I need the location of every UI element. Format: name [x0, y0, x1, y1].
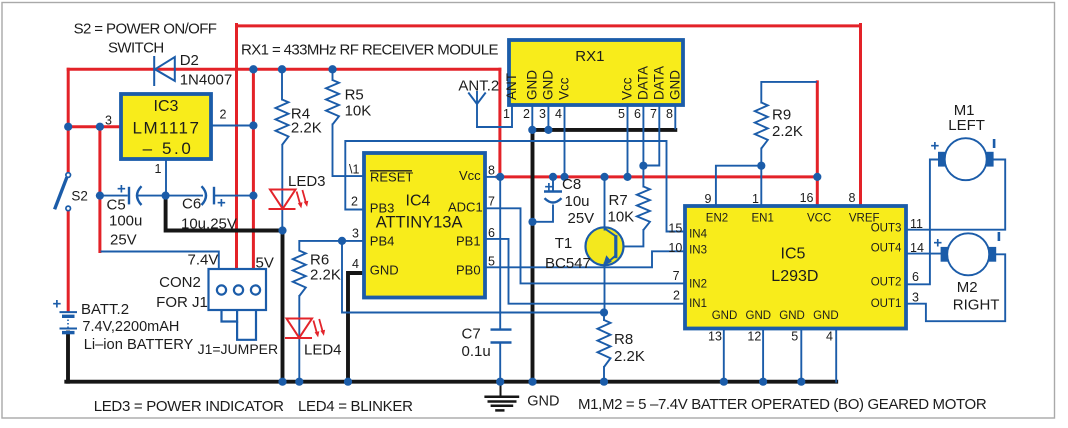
svg-text:7: 7: [673, 269, 680, 283]
wire: antenna stem: [476, 104, 478, 127]
wire: ground from C5/C6 junction down, right, and down to bottom bus: [166, 197, 283, 382]
wire: R5 bottom to IC4 RESET pin 1: [333, 125, 363, 177]
node: battery riser / IC3 pin3: [64, 123, 72, 131]
svg-text:IN4: IN4: [689, 229, 708, 241]
wire: R4 top to 5V line: [281, 71, 283, 100]
svg-text:LED4: LED4: [304, 342, 342, 359]
resistor R5: [326, 80, 339, 125]
wire: R9 bottom node to IC5 EN2 pin 9: [716, 166, 761, 205]
wire: bottom ground bus: [66, 380, 836, 384]
svg-text:5: 5: [488, 255, 495, 269]
wire: RX1 pin 7 DATA joining DATA node: [645, 105, 659, 166]
svg-text:OUT1: OUT1: [871, 298, 902, 310]
svg-text:M1,M2 = 5 –7.4V BATTER OPERATE: M1,M2 = 5 –7.4V BATTER OPERATED (BO) GEA…: [578, 396, 987, 413]
svg-text:25V: 25V: [110, 232, 137, 249]
wire: R9 top to VCC corner: [761, 82, 816, 103]
IC4 ATTINY13A body: [364, 153, 485, 298]
svg-text:GND: GND: [813, 310, 839, 322]
jumper J1 bracket 2: [237, 311, 256, 340]
svg-text:IC5: IC5: [781, 246, 806, 263]
node: LED3 cathode / ground line: [278, 226, 286, 234]
capacitor C5: [129, 186, 142, 205]
svg-text:PB4: PB4: [370, 234, 395, 249]
wire: emitter node to R8 top: [603, 313, 605, 321]
svg-text:– 5.0: – 5.0: [143, 139, 194, 158]
svg-text:GND: GND: [524, 70, 539, 100]
wire: 7.4V vertical to CON2 pin left: [235, 25, 238, 270]
svg-text:14: 14: [910, 241, 924, 255]
wire: IC4 pin 3 PB4 stub: [342, 240, 363, 242]
svg-text:R8: R8: [614, 331, 633, 348]
IC5 L293D body: [685, 206, 906, 329]
node: RX1 pin3 / ground: [544, 126, 552, 134]
wire: T1 emitter down to node: [604, 264, 606, 313]
wire: R5 top to 5V line: [332, 71, 334, 80]
wire: RX1 pin 4 Vcc to 5V rail: [564, 105, 566, 175]
svg-text:6: 6: [634, 107, 641, 121]
node: bus / IC5 pin12: [759, 378, 767, 386]
svg-text:3: 3: [912, 291, 919, 305]
svg-text:10: 10: [668, 241, 682, 255]
svg-text:VCC: VCC: [807, 213, 831, 225]
svg-text:SWITCH: SWITCH: [108, 40, 164, 57]
svg-text:10K: 10K: [608, 209, 635, 226]
svg-text:IC3: IC3: [154, 98, 179, 115]
node: 5V rail / IC4 pin8 / C7: [496, 173, 504, 181]
wire: RX1 pin 5 Vcc to 5V rail: [627, 105, 629, 175]
wire: RX1 pin 2 GND stub: [531, 105, 533, 128]
svg-text:LED3 = POWER INDICATOR: LED3 = POWER INDICATOR: [94, 398, 284, 415]
motor M2: [941, 233, 997, 275]
wire: RX1 pin 3 GND stub: [547, 105, 549, 128]
motor M1: [938, 138, 994, 180]
svg-text:OUT3: OUT3: [871, 223, 902, 235]
svg-text:GND: GND: [370, 263, 399, 278]
node: 5V line / R4: [278, 65, 286, 73]
wire: battery riser above switch S2: [67, 69, 70, 172]
battery BATT.2: [60, 312, 78, 333]
svg-text:3: 3: [105, 114, 112, 128]
wire: main ground vertical x=532.5: [531, 130, 535, 382]
svg-text:IN2: IN2: [689, 278, 707, 290]
svg-text:6: 6: [912, 270, 919, 284]
svg-text:J1=JUMPER: J1=JUMPER: [198, 341, 279, 357]
connector CON2: [209, 269, 267, 310]
node: DATA pins 6+7: [639, 162, 647, 170]
svg-text:2.2K: 2.2K: [310, 267, 341, 284]
svg-text:M2: M2: [957, 279, 978, 296]
wire: IC5 GND pin 12 to bus: [762, 329, 764, 380]
svg-text:RIGHT: RIGHT: [953, 297, 1000, 314]
svg-text:IC4: IC4: [406, 193, 431, 210]
svg-text:3: 3: [352, 227, 359, 241]
wire: VREF vertical from top rail to IC5 pin 8: [859, 25, 862, 206]
svg-text:S2: S2: [71, 188, 88, 203]
node: bus / LED4: [295, 378, 303, 386]
node: bus / IC5 pin13: [720, 378, 728, 386]
svg-text:PB3: PB3: [370, 201, 395, 216]
node: 5V rail / IC5 VCC: [813, 173, 821, 181]
capacitor C8: [544, 192, 562, 203]
wire: IC4 pin 2 PB3 up and across to IC5 IN4: [345, 141, 685, 232]
node: 5V rail / T1 collector: [600, 173, 608, 181]
wire: IC4 pin 8 Vcc stub to 5V rail: [485, 176, 498, 178]
svg-text:+: +: [217, 195, 226, 212]
resistor R7: [637, 187, 650, 231]
svg-text:C6: C6: [182, 196, 201, 213]
wire: T1 collector to 5V rail: [604, 178, 606, 229]
svg-text:+: +: [931, 138, 940, 155]
node: bus / IC5 pin5: [797, 378, 805, 386]
wire: IC5 GND pin 5 to bus: [800, 329, 802, 380]
wire: IC5 OUT4 pin 14 to M2 left brush: [906, 253, 941, 255]
wire: IC4 pin 6 PB1 to IC5 IN1: [485, 239, 685, 304]
wire: IC4 pin 5 PB0 to IC5 IN3: [485, 251, 685, 267]
svg-text:+: +: [53, 296, 62, 313]
svg-text:FOR J1: FOR J1: [156, 294, 208, 311]
svg-text:OUT4: OUT4: [871, 243, 902, 255]
svg-text:5: 5: [791, 330, 798, 344]
wire: 5V rail to IC4 Vcc / RX1 / T1 / IC5 VCC: [497, 175, 817, 178]
RX1 module body: [509, 40, 683, 105]
svg-text:10u,25V: 10u,25V: [181, 216, 237, 233]
wire: C8 bottom lead to ground vertical: [535, 206, 554, 222]
svg-text:DATA: DATA: [651, 66, 666, 100]
wire: R6 bottom to LED4: [298, 296, 300, 380]
wire: C6 right lead to 5V vertical: [216, 195, 252, 197]
svg-text:3: 3: [539, 107, 546, 121]
label: M1 minus bar: [993, 139, 996, 148]
svg-text:ANT.2: ANT.2: [458, 78, 499, 95]
svg-text:8: 8: [666, 107, 673, 121]
wire: IC5 OUT1 pin 3 to M2 right brush: [906, 254, 1005, 321]
node: x100 vertical / IC3 pin3 line: [96, 123, 104, 131]
node: 5V rail / RX1 pin4: [560, 173, 568, 181]
svg-text:1N4007: 1N4007: [180, 71, 233, 88]
svg-text:2.2K: 2.2K: [614, 348, 645, 365]
svg-text:BATT.2: BATT.2: [81, 301, 129, 318]
svg-text:GND: GND: [527, 393, 559, 409]
svg-text:GND: GND: [667, 70, 682, 100]
svg-text:7: 7: [488, 195, 495, 209]
label: M2 minus bar: [998, 232, 1001, 241]
svg-text:0.1u: 0.1u: [462, 343, 491, 360]
resistor R4: [276, 100, 289, 146]
svg-text:10K: 10K: [345, 103, 372, 120]
resistor R6: [293, 251, 306, 296]
node: bus / C7 GND: [496, 378, 504, 386]
wire: input to IC3 pin 3: [68, 125, 121, 128]
svg-text:ADC1: ADC1: [448, 200, 483, 215]
node: bus / ground vertical: [528, 378, 536, 386]
svg-text:R7: R7: [609, 192, 628, 209]
wire: C8 top lead from 5V rail: [552, 178, 554, 191]
svg-text:1: 1: [503, 107, 510, 121]
wire: battery riser below switch S2 to battery +: [67, 211, 70, 311]
svg-text:6: 6: [488, 226, 495, 240]
svg-text:R9: R9: [772, 107, 791, 124]
wire: vertical x=100 down to 7.4V corner: [98, 127, 101, 252]
svg-text:GND: GND: [712, 310, 738, 322]
node: 5V rail / RX1 pin5: [623, 173, 631, 181]
svg-text:2.2K: 2.2K: [291, 120, 322, 137]
svg-text:8: 8: [849, 191, 856, 205]
svg-text:EN2: EN2: [706, 213, 728, 225]
node: 5V line / R5: [328, 65, 336, 73]
svg-text:EN1: EN1: [752, 213, 774, 225]
svg-text:5V: 5V: [256, 255, 274, 272]
svg-text:8: 8: [488, 164, 495, 178]
svg-text:IN1: IN1: [689, 298, 707, 310]
svg-text:PB1: PB1: [456, 234, 481, 249]
antenna ANT.2: [468, 91, 485, 104]
svg-text:GND: GND: [779, 310, 805, 322]
svg-text:12: 12: [747, 330, 761, 344]
svg-text:LEFT: LEFT: [948, 117, 985, 134]
wire: PB4 node down and right to T1 emitter node: [342, 241, 602, 313]
node: RX1 pin2 / ground: [528, 126, 536, 134]
node: IC3 pin2 / 5V vertical: [249, 121, 257, 129]
svg-text:15: 15: [668, 222, 682, 236]
wire: IC5 OUT3 pin 11 to M1 right brush: [906, 160, 1005, 230]
svg-text:PB0: PB0: [456, 263, 481, 278]
wire: 5V vertical x=253 from 5V line to CON2: [252, 70, 255, 270]
ground symbol GND: [484, 382, 519, 411]
wire: C5 left lead: [102, 195, 127, 197]
svg-text:+: +: [117, 181, 126, 198]
svg-text:16: 16: [800, 191, 814, 205]
svg-text:13: 13: [708, 330, 722, 344]
svg-text:9: 9: [705, 192, 712, 206]
svg-text:1: 1: [155, 162, 162, 176]
node: C8 bottom / ground vertical: [528, 218, 536, 226]
svg-text:RX1: RX1: [575, 48, 604, 65]
wire: IC3 pin 2 output to 5V vertical: [211, 125, 252, 127]
wire: C7 bottom lead to ground bus: [499, 343, 501, 380]
node: T1 emitter / PB4 line: [600, 308, 608, 316]
wire: 5V corner vertical down to 5V rail: [498, 69, 501, 177]
node: 5V rail / C8: [549, 173, 557, 181]
svg-text:LED3: LED3: [288, 173, 326, 190]
svg-text:\1: \1: [349, 163, 359, 177]
wire: RX1 pin 8 GND stub: [674, 105, 676, 129]
node: R9 bottom / EN1 / EN2: [757, 162, 765, 170]
svg-text:R5: R5: [345, 87, 364, 104]
svg-text:C7: C7: [462, 326, 481, 343]
svg-text:GND: GND: [746, 310, 772, 322]
resistor R9: [755, 103, 768, 149]
svg-text:5: 5: [618, 107, 625, 121]
svg-text:2.2K: 2.2K: [772, 123, 803, 140]
wire: IC5 GND pin 13 to bus: [723, 329, 725, 380]
svg-text:ANT: ANT: [504, 73, 519, 100]
wire: PB4 node left to R6 top: [299, 241, 342, 251]
svg-text:2: 2: [673, 289, 680, 303]
svg-text:7: 7: [650, 107, 657, 121]
wire: R9 bottom node to IC5 EN1 pin 1: [760, 166, 762, 205]
svg-text:OUT2: OUT2: [871, 276, 902, 288]
wire: R9 bottom lead: [760, 149, 762, 166]
node: PB4 node: [338, 237, 346, 245]
wire: R7 bottom to T1 base: [617, 230, 643, 246]
svg-text:11: 11: [910, 217, 923, 231]
svg-text:2: 2: [220, 108, 227, 122]
svg-text:C8: C8: [562, 176, 581, 193]
svg-text:L293D: L293D: [771, 268, 818, 285]
wire: IC4 GND pin 4 to ground bus: [348, 273, 363, 382]
svg-text:T1: T1: [555, 235, 573, 252]
svg-text:RX1 = 433MHz RF RECEIVER MODUL: RX1 = 433MHz RF RECEIVER MODULE: [241, 42, 498, 59]
svg-text:C5: C5: [107, 197, 126, 214]
svg-text:D2: D2: [180, 52, 199, 69]
svg-text:RESET: RESET: [370, 170, 413, 185]
svg-text:BC547: BC547: [545, 255, 591, 272]
wire: junction to C6 left plate: [167, 195, 202, 197]
wire: IC5 GND pin 4 to bus corner: [835, 329, 837, 382]
svg-text:2: 2: [351, 195, 358, 209]
svg-text:25V: 25V: [568, 210, 595, 227]
svg-text:4: 4: [826, 330, 833, 344]
svg-text:4: 4: [352, 257, 359, 271]
LED3: [269, 190, 309, 210]
capacitor C7: [491, 330, 512, 343]
wire: IC4 pin 7 ADC1 to IC5 IN2: [485, 208, 685, 283]
svg-text:DATA: DATA: [635, 66, 650, 100]
node: 5V line / x253 vertical: [249, 65, 257, 73]
svg-text:ATTINY13A: ATTINY13A: [376, 214, 463, 232]
switch S2: [55, 173, 71, 211]
svg-text:Vcc: Vcc: [459, 168, 481, 183]
svg-text:IN3: IN3: [689, 245, 707, 257]
svg-text:100u: 100u: [109, 213, 142, 230]
wire: 7.4V feed to CON2 pin 1: [102, 252, 219, 270]
svg-text:4: 4: [555, 107, 562, 121]
svg-text:LED4 = BLINKER: LED4 = BLINKER: [298, 398, 413, 415]
wire: R8 bottom to ground bus: [603, 367, 605, 380]
wire: VCC16 vertical from R9 top corner to IC5 pin 16: [816, 82, 819, 205]
wire: top 7.4V rail: [237, 24, 861, 27]
node: C5 / x100 vertical: [96, 192, 104, 200]
svg-text:10u: 10u: [565, 193, 590, 210]
IC3 LM1117 body: [121, 94, 211, 159]
diode D2: [154, 56, 175, 86]
svg-text:7.4V: 7.4V: [188, 252, 219, 269]
svg-text:S2 = POWER ON/OFF: S2 = POWER ON/OFF: [74, 21, 217, 38]
node: bus / R8: [600, 378, 608, 386]
node: C5-C6-pin1 junction: [162, 192, 170, 200]
svg-text:Vcc: Vcc: [557, 77, 572, 100]
LED4: [285, 319, 325, 339]
svg-text:+: +: [545, 179, 554, 196]
transistor T1 BC547: [586, 227, 624, 266]
resistor R8: [598, 320, 611, 367]
svg-text:2: 2: [523, 107, 530, 121]
wire: IC5 OUT2 pin 6 to M1 left brush: [906, 160, 938, 285]
wire: 5V horizontal line through D2: [68, 68, 500, 71]
wire: R4 bottom to LED3: [281, 145, 283, 229]
wire: C5 right lead to junction: [137, 195, 164, 197]
wire: RX1 pin 1 ANT to antenna: [477, 105, 512, 127]
wire: RX1 ground bus pins 2,3,8: [532, 128, 676, 132]
svg-text:7.4V,2200mAH: 7.4V,2200mAH: [82, 319, 179, 335]
capacitor C6: [202, 186, 215, 205]
node: bus / IC4 GND branch: [344, 378, 352, 386]
svg-text:Vcc: Vcc: [620, 77, 635, 100]
wire: RX1 pin 6 DATA down to R7: [642, 105, 644, 187]
svg-text:LM1117: LM1117: [133, 119, 201, 138]
wire: C7 top lead from 5V rail: [499, 178, 501, 329]
wire: IC3 pin 1 down to C5/C6 junction: [165, 159, 167, 194]
node: bus / LED3 ground branch: [278, 378, 286, 386]
svg-text:1: 1: [752, 192, 759, 206]
jumper J1 bracket 1: [222, 311, 238, 322]
svg-text:Li–ion BATTERY: Li–ion BATTERY: [84, 337, 194, 353]
node: C6 / 5V vertical: [249, 192, 257, 200]
svg-text:+: +: [933, 235, 942, 252]
svg-text:CON2: CON2: [159, 274, 201, 291]
wire: battery minus down to bottom bus: [66, 333, 70, 382]
svg-text:GND: GND: [540, 70, 555, 100]
